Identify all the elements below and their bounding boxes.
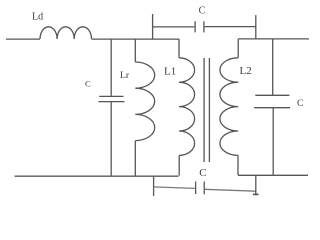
wire: stub up to top capacitor row (152, 14, 154, 39)
capacitor C (right) bottom lead (272, 108, 274, 175)
inductor L1 bottom lead (178, 155, 180, 175)
capacitor C (bottom) plates (196, 182, 205, 195)
wire: bottom stub left (153, 176, 155, 196)
wire: bottom stub right (255, 175, 257, 195)
svg-text:L1: L1 (164, 65, 176, 77)
wire: bottom-left bus (15, 175, 179, 177)
inductor L2 bottom lead (237, 155, 239, 175)
inductor Lr top lead (134, 39, 136, 62)
inductor L2 top lead (237, 39, 239, 58)
wire: top-left bus (92, 38, 180, 40)
capacitor C (left) top lead (110, 39, 112, 96)
svg-text:C: C (297, 98, 303, 109)
capacitor C (left) plates (99, 96, 125, 101)
capacitor C (right) top lead (272, 39, 274, 95)
capacitor C (right) plates (254, 95, 290, 107)
capacitor C (left) bottom lead (110, 102, 112, 176)
transformer core line right (208, 58, 210, 162)
capacitor C (top) plates (195, 21, 204, 32)
svg-text:L2: L2 (240, 65, 252, 77)
transformer core line left (203, 58, 205, 162)
svg-text:C: C (199, 5, 206, 16)
inductor Lr bottom lead (134, 141, 136, 176)
junction blob at bottom stub right (253, 193, 259, 195)
wire: top capacitor row right segment (205, 26, 256, 28)
svg-text:Lr: Lr (120, 70, 130, 81)
inductor L2 coil (220, 58, 238, 156)
svg-text:C: C (85, 79, 91, 89)
inductor L1 coil (179, 58, 195, 156)
svg-text:Ld: Ld (32, 12, 43, 23)
wire: bottom capacitor row left segment (154, 187, 195, 189)
wire: bottom-right bus (238, 174, 308, 176)
inductor L1 top lead (178, 39, 180, 58)
wire: left input lead (6, 38, 40, 40)
inductor Lr coil (135, 62, 154, 141)
wire: stub at right of top capacitor (255, 15, 257, 39)
inductor Ld (40, 27, 92, 39)
wire: top capacitor row left segment (153, 26, 195, 28)
wire: top-right bus (238, 38, 309, 40)
wire: bottom capacitor row right segment (205, 189, 256, 191)
svg-text:C: C (199, 167, 206, 179)
